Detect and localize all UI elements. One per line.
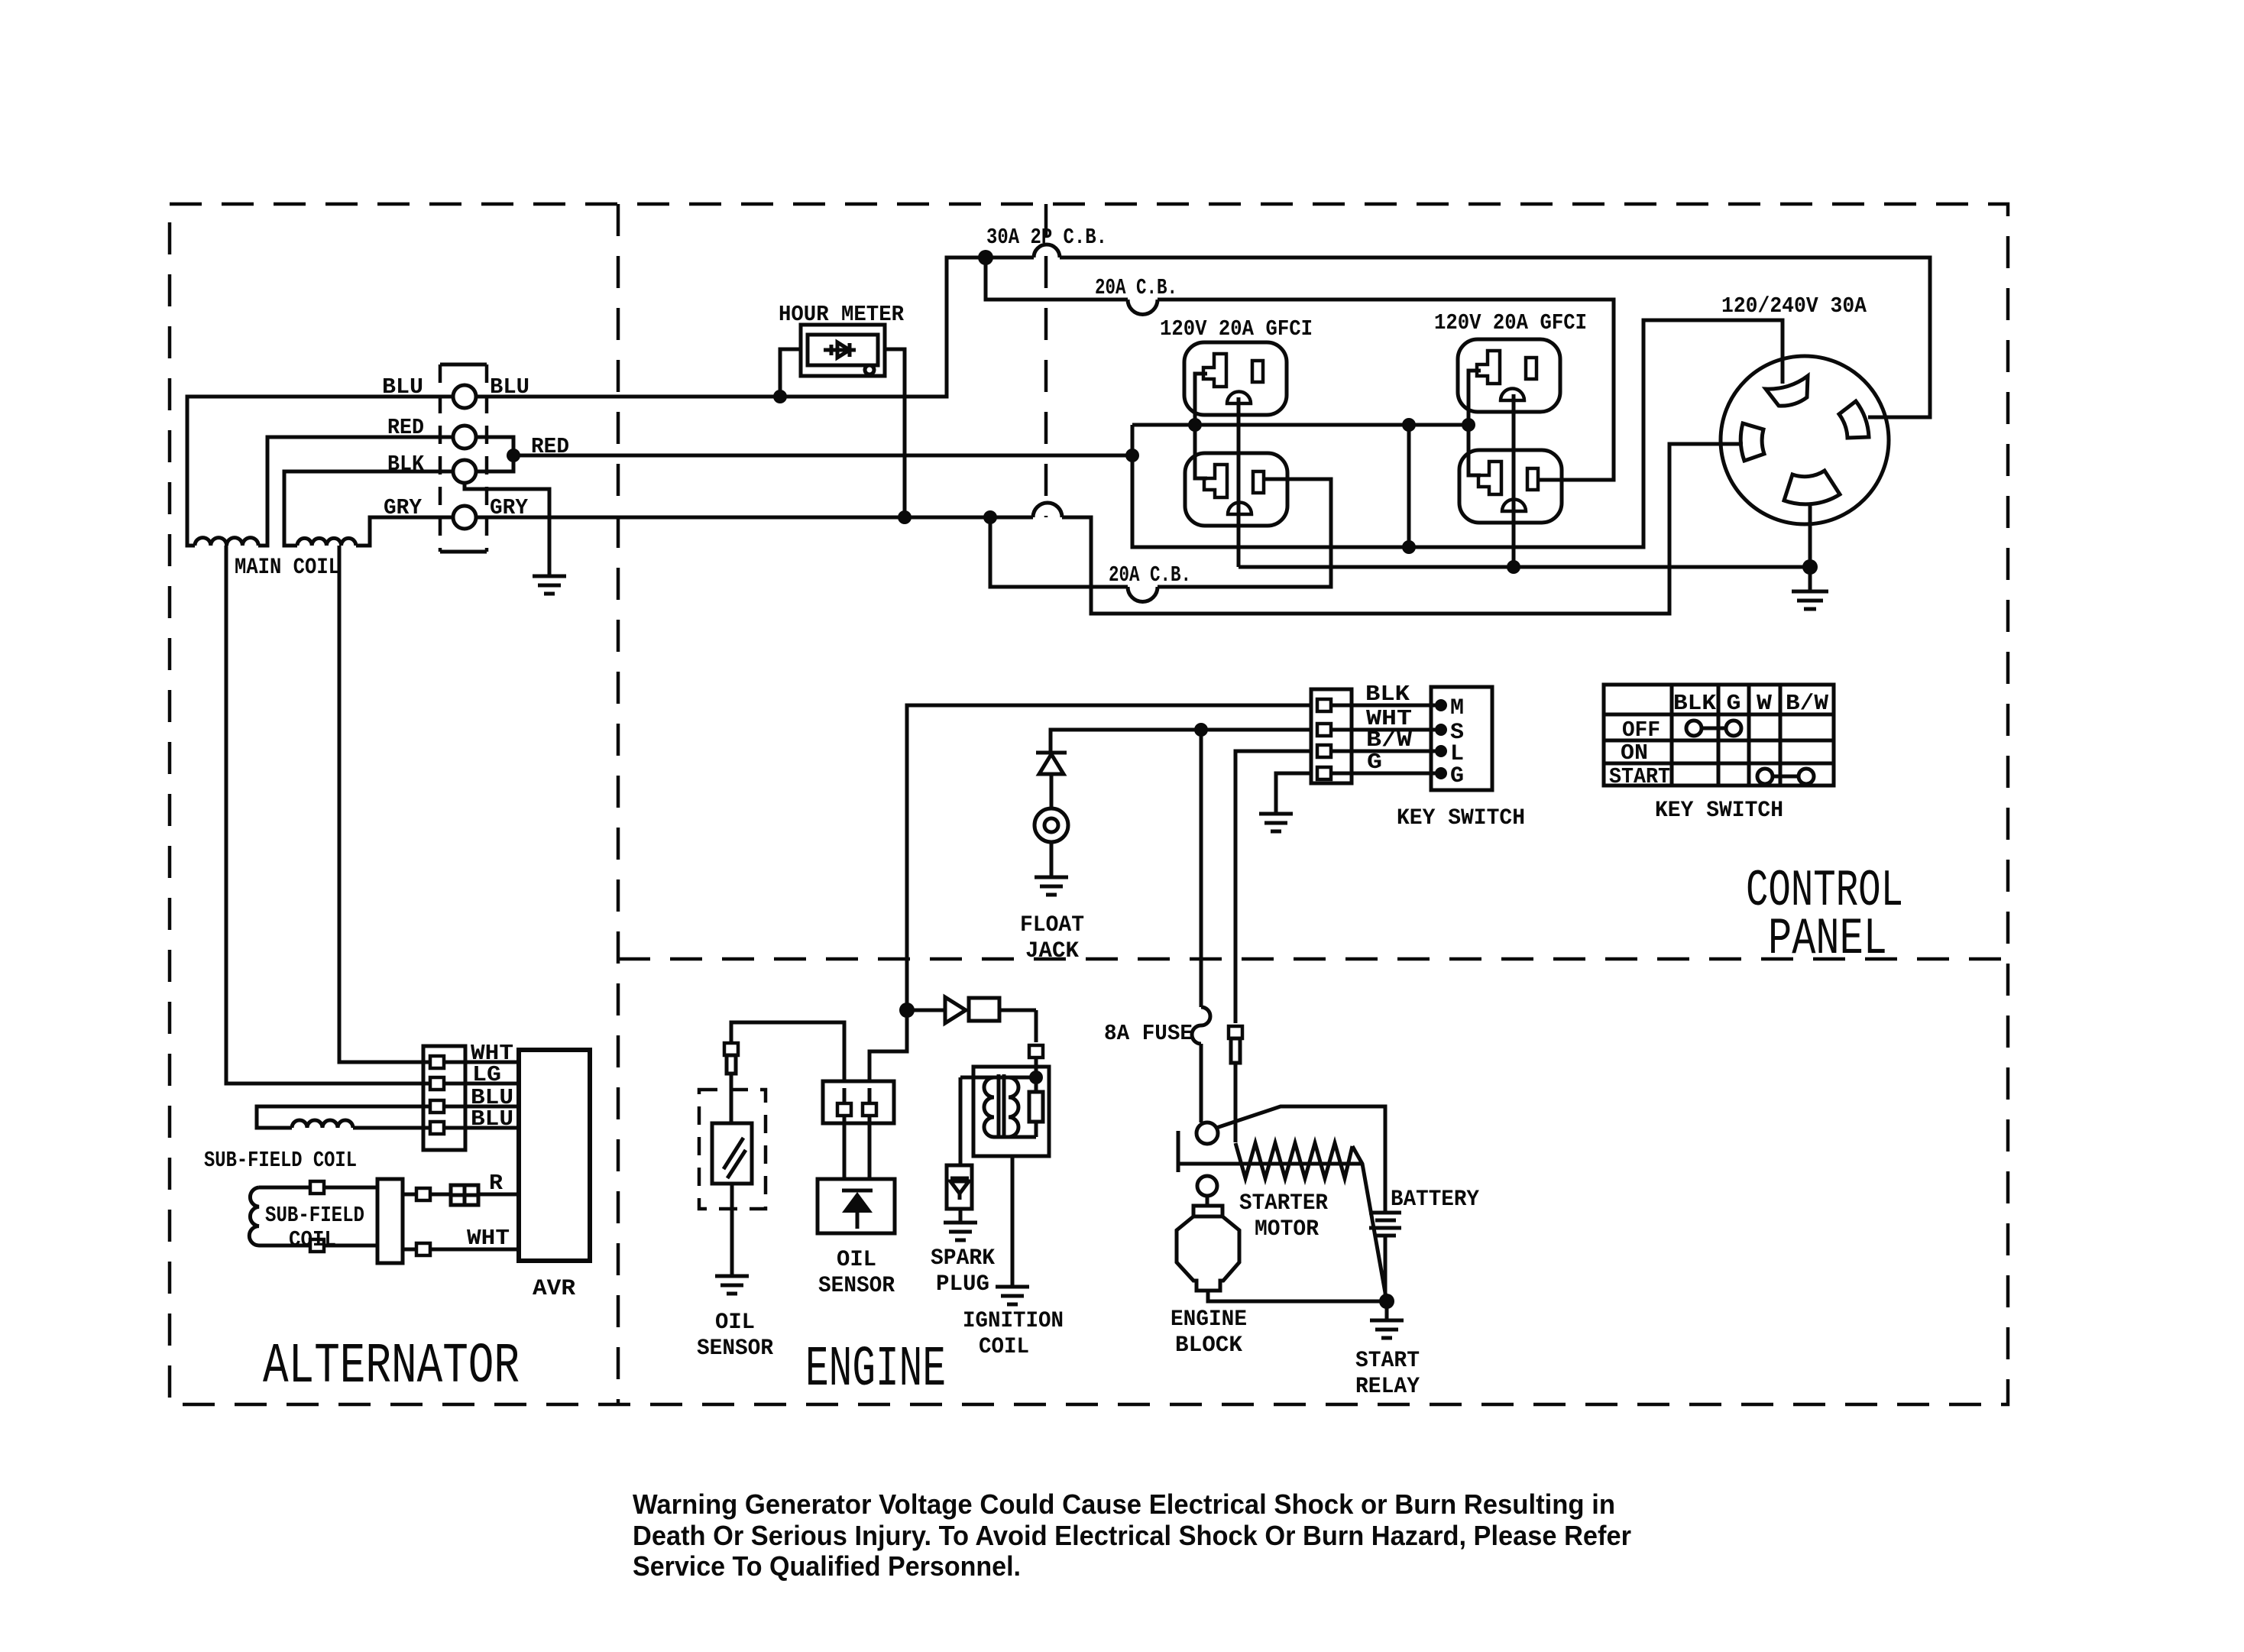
key switch terminal S bbox=[1435, 724, 1447, 736]
diode float jack bbox=[1036, 753, 1067, 808]
wire ignition coil to spark plug bbox=[959, 1077, 963, 1165]
ground symbol key switch bbox=[1259, 814, 1293, 831]
wire housing to R fuse bbox=[403, 1193, 451, 1197]
svg-text:120V 20A GFCI: 120V 20A GFCI bbox=[1160, 316, 1313, 342]
key switch body bbox=[1431, 687, 1492, 790]
CDI unit (triangle and box) bbox=[907, 997, 1036, 1023]
wire BLK from main coil to connector bbox=[284, 471, 453, 546]
AVR pin LG bbox=[430, 1077, 461, 1090]
wire BLU terminal to hour meter tap and 30A breaker riser bbox=[476, 258, 1034, 397]
svg-text:G: G bbox=[1727, 691, 1741, 716]
twist-lock receptacle body 120/240V 30A bbox=[1721, 356, 1889, 524]
svg-text:BLK: BLK bbox=[387, 452, 425, 477]
wire B/W pin to relay coil bbox=[1234, 1063, 1238, 1142]
svg-text:G: G bbox=[1367, 750, 1382, 775]
GFCI receptacle pair 1 lower bbox=[1185, 453, 1287, 526]
enclosure divider: alternator right wall (dashed) bbox=[617, 204, 620, 1404]
resistor leads bbox=[993, 1077, 1036, 1137]
twist-lock right contact bbox=[1839, 401, 1869, 438]
svg-text:COIL: COIL bbox=[979, 1334, 1029, 1360]
terminal circle BLK bbox=[453, 460, 476, 483]
junction dot ground bus pair 2 bbox=[1507, 560, 1520, 574]
earth ground symbol at receptacle bbox=[1792, 591, 1828, 609]
starter motor terminal circle bbox=[1197, 1176, 1217, 1196]
wire junction to ground bbox=[1385, 1301, 1389, 1320]
GFCI receptacle pair 2 upper bbox=[1458, 339, 1560, 412]
spark plug case bbox=[947, 1165, 972, 1209]
svg-text:ALTERNATOR: ALTERNATOR bbox=[263, 1335, 520, 1399]
ground symbol spark plug bbox=[944, 1223, 977, 1240]
svg-text:STARTER: STARTER bbox=[1239, 1190, 1328, 1216]
svg-text:Service To Qualified Personnel: Service To Qualified Personnel. bbox=[633, 1550, 1021, 1582]
terminal circle GRY bbox=[453, 506, 476, 529]
svg-text:PANEL: PANEL bbox=[1768, 910, 1887, 969]
wire BLU from main coil to connector bbox=[187, 397, 453, 546]
junction dot ignition coil bbox=[1029, 1071, 1043, 1084]
junction dot ignition feed bbox=[899, 1003, 915, 1018]
oil level sensor (dashed case) bbox=[699, 1090, 766, 1209]
circuit breaker arc on GRY line bbox=[1033, 503, 1062, 517]
wire hour meter left lead bbox=[780, 349, 801, 397]
oil sensor module connector bbox=[823, 1081, 894, 1123]
wire BLK terminal to case ground bbox=[465, 483, 549, 576]
junction dot hour meter right tap bbox=[898, 510, 912, 524]
svg-text:8A FUSE: 8A FUSE bbox=[1104, 1021, 1193, 1046]
svg-text:OIL: OIL bbox=[837, 1247, 876, 1273]
wire branch to upper 20A breaker bbox=[986, 258, 1128, 300]
wire B/W from key switch to start relay coil bbox=[1235, 751, 1311, 1023]
GFCI receptacle pair 1 upper bbox=[1184, 342, 1287, 415]
junction dot lower 20A breaker branch bbox=[983, 510, 997, 524]
module pin right bbox=[863, 1088, 876, 1116]
svg-text:KEY SWITCH: KEY SWITCH bbox=[1397, 805, 1525, 831]
wire fuse to start relay contact bbox=[1200, 1044, 1203, 1122]
ignition coil secondary winding bbox=[1009, 1077, 1018, 1137]
ignition coil primary winding bbox=[984, 1077, 994, 1137]
wire GFCI pair 2 T-slot chain bbox=[1468, 371, 1481, 475]
wire hour meter right lead bbox=[885, 349, 905, 517]
ignition coil case bbox=[973, 1067, 1049, 1156]
svg-text:ENGINE: ENGINE bbox=[805, 1338, 946, 1402]
svg-text:BLU: BLU bbox=[382, 374, 423, 400]
oil sensor diode bbox=[842, 1190, 873, 1229]
wire WHT from key switch to float jack branch bbox=[1051, 730, 1311, 753]
AVR pin WHT bbox=[430, 1056, 461, 1068]
junction dot start relay ground bbox=[1379, 1294, 1394, 1309]
svg-text:HOUR METER: HOUR METER bbox=[779, 302, 905, 327]
wire pin to oil sensor bbox=[730, 1074, 733, 1123]
wire 30A breaker to twist-lock right contact bbox=[1060, 258, 1930, 417]
internal dashed partition near circuit breakers bbox=[1044, 204, 1048, 517]
twist-lock ground contact bbox=[1784, 471, 1840, 504]
svg-text:PLUG: PLUG bbox=[936, 1271, 989, 1297]
pin on WHT wire bbox=[416, 1243, 430, 1255]
start relay armature to battery bbox=[1216, 1106, 1385, 1213]
wires AVR pins to AVR block bbox=[461, 1062, 519, 1128]
svg-text:KEY SWITCH: KEY SWITCH bbox=[1655, 798, 1783, 824]
wire ignition coil to ground bbox=[1011, 1156, 1015, 1287]
wire twist-lock ground contact bbox=[1808, 503, 1812, 591]
float jack connector bbox=[1035, 808, 1068, 842]
wire G pin to ground bbox=[1276, 773, 1311, 814]
circuit breaker 30A 2P C.B. (arc) bbox=[1034, 245, 1060, 258]
wire CDI to ignition coil bbox=[1035, 1010, 1038, 1042]
svg-text:BLK: BLK bbox=[1365, 682, 1410, 707]
svg-text:OFF: OFF bbox=[1622, 717, 1660, 743]
wire B/W connector to switch bbox=[1348, 750, 1441, 753]
wire GRY terminal to breakers and twist-lock left contact bbox=[476, 516, 1033, 520]
start relay coil (zigzag) bbox=[1235, 1143, 1352, 1178]
fuse box R (crossed square) bbox=[451, 1185, 478, 1205]
wires module to diode box bbox=[844, 1116, 869, 1179]
svg-text:SUB-FIELD COIL: SUB-FIELD COIL bbox=[204, 1148, 357, 1173]
key switch harness connector bbox=[1311, 689, 1352, 783]
svg-text:ENGINE: ENGINE bbox=[1171, 1307, 1247, 1333]
svg-text:Warning Generator Voltage Cou: Warning Generator Voltage Could Cause El… bbox=[633, 1488, 1615, 1520]
svg-text:B/W: B/W bbox=[1786, 691, 1829, 716]
table START contact link bbox=[1757, 769, 1814, 784]
alternator terminal strip (dashed sides) bbox=[440, 364, 487, 552]
start relay core line bbox=[1178, 1162, 1362, 1166]
svg-text:W: W bbox=[1757, 691, 1773, 716]
svg-text:BLOCK: BLOCK bbox=[1175, 1333, 1242, 1359]
junction dot neutral lower run bbox=[1402, 540, 1416, 554]
hour meter inner window bbox=[808, 335, 878, 365]
ground bus GFCI pair 1 bbox=[1237, 397, 1241, 567]
fuse 8A FUSE bbox=[1192, 1007, 1210, 1044]
enclosure divider: control panel / engine boundary (dashed) bbox=[618, 957, 2008, 961]
svg-text:RED: RED bbox=[387, 415, 424, 440]
junction dot hour meter left tap bbox=[773, 390, 787, 403]
key switch connector pin S bbox=[1317, 724, 1348, 736]
svg-text:R: R bbox=[489, 1171, 504, 1196]
table OFF contact link bbox=[1686, 721, 1741, 736]
hour meter internal diode bbox=[824, 342, 856, 358]
wire main coil tap to AVR pin LG bbox=[226, 546, 430, 1084]
inline connector pin on oil sensor wire bbox=[724, 1043, 738, 1074]
svg-text:MOTOR: MOTOR bbox=[1255, 1216, 1319, 1242]
key switch connector pin L bbox=[1317, 745, 1348, 757]
wire upper 20A breaker to GFCI pair 2 hot slot bbox=[1158, 300, 1614, 480]
wire sub-field coil 1 to BLU pins bbox=[257, 1106, 430, 1128]
svg-text:ON: ON bbox=[1621, 740, 1648, 766]
wire WHT start branch to 8A fuse bbox=[1200, 730, 1203, 1007]
svg-text:M: M bbox=[1450, 695, 1464, 721]
ground symbol ignition coil bbox=[996, 1287, 1029, 1304]
starter motor body bbox=[1177, 1196, 1239, 1291]
ground symbol start relay bbox=[1370, 1320, 1404, 1338]
wire RED from main coil to connector bbox=[258, 437, 453, 546]
inline connector pin on B/W wire bbox=[1229, 1026, 1242, 1063]
main coil winding 2 bbox=[297, 538, 356, 546]
svg-text:COIL: COIL bbox=[289, 1227, 336, 1252]
AVR block bbox=[519, 1050, 590, 1261]
svg-text:FLOAT: FLOAT bbox=[1020, 912, 1084, 938]
svg-text:RELAY: RELAY bbox=[1355, 1374, 1420, 1400]
key switch table bbox=[1604, 685, 1834, 786]
battery symbol bbox=[1369, 1213, 1401, 1236]
svg-text:WHT: WHT bbox=[467, 1226, 510, 1251]
pin on R wire bbox=[416, 1188, 430, 1200]
twist-lock top contact bbox=[1766, 376, 1808, 406]
neutral bus between GFCI pairs bbox=[1132, 423, 1468, 427]
wire RED riser to neutral bus and twist-lock top contact run bbox=[1132, 320, 1783, 547]
AVR harness connector bbox=[423, 1046, 465, 1150]
alternator / control panel / engine outer enclosure (dashed) bbox=[170, 204, 2008, 1404]
terminal circle RED bbox=[453, 426, 476, 449]
oil sensor diode box bbox=[818, 1179, 895, 1233]
ignition coil transformer core bbox=[999, 1074, 1004, 1139]
key switch terminal M bbox=[1435, 699, 1447, 711]
spark plug gap symbol bbox=[950, 1178, 969, 1200]
ground symbol below terminal strip bbox=[533, 576, 566, 594]
svg-text:20A C.B.: 20A C.B. bbox=[1109, 562, 1191, 588]
wire G connector to switch bbox=[1348, 772, 1441, 776]
wire BLK connector to switch bbox=[1348, 704, 1441, 708]
junction dot RED output bbox=[507, 449, 520, 462]
wire housing to AVR WHT bbox=[403, 1248, 519, 1252]
sub-field coil 2 loop wires bbox=[259, 1187, 377, 1245]
AVR pin BLU2 bbox=[430, 1122, 461, 1134]
wire neutral branch riser bbox=[1407, 425, 1411, 547]
ground symbol oil sensor bbox=[715, 1276, 749, 1294]
junction dot WHT to start circuit bbox=[1194, 723, 1208, 737]
wire oil sensor to ground bbox=[730, 1184, 734, 1276]
svg-text:G: G bbox=[1450, 763, 1464, 789]
key switch terminal L bbox=[1435, 745, 1447, 757]
svg-text:SENSOR: SENSOR bbox=[697, 1336, 773, 1362]
terminal circle BLU bbox=[453, 385, 476, 408]
start relay moving contact bbox=[1196, 1122, 1218, 1144]
junction dot neutral at GFCI pair 2 bbox=[1462, 418, 1475, 432]
svg-text:120/240V 30A: 120/240V 30A bbox=[1721, 293, 1867, 319]
wire RED output to GFCI neutral network bbox=[513, 454, 1132, 458]
wire GRY from main coil to connector bbox=[356, 517, 453, 546]
junction dot main ground bbox=[1802, 559, 1818, 575]
junction dot 30A breaker branch bbox=[978, 250, 993, 265]
svg-text:AVR: AVR bbox=[533, 1276, 575, 1302]
AVR pin BLU1 bbox=[430, 1100, 461, 1113]
wire R fuse to AVR bbox=[478, 1193, 519, 1197]
ignition coil resistor bbox=[1029, 1092, 1043, 1122]
key switch connector pin M bbox=[1317, 699, 1348, 711]
svg-text:Death Or Serious Injury. To Av: Death Or Serious Injury. To Avoid Electr… bbox=[633, 1520, 1631, 1551]
junction dot RED at GFCI riser bbox=[1125, 449, 1139, 462]
svg-text:SPARK: SPARK bbox=[931, 1245, 995, 1271]
svg-text:120V 20A GFCI: 120V 20A GFCI bbox=[1434, 310, 1587, 335]
wire BLK from key switch to engine bbox=[907, 705, 1311, 1010]
warning text bbox=[633, 1488, 1631, 1582]
svg-text:BLU: BLU bbox=[471, 1106, 513, 1132]
key switch terminal G bbox=[1435, 767, 1447, 779]
wire starter motor to ground junction bbox=[1208, 1291, 1387, 1301]
main coil winding 1 bbox=[195, 538, 258, 546]
svg-text:20A C.B.: 20A C.B. bbox=[1095, 275, 1177, 300]
wire battery to ground junction bbox=[1384, 1236, 1388, 1301]
svg-text:30A 2P C.B.: 30A 2P C.B. bbox=[986, 225, 1107, 250]
svg-text:MAIN COIL: MAIN COIL bbox=[235, 555, 340, 581]
wire main coil tap to AVR pin WHT bbox=[339, 546, 430, 1062]
ground bus GFCI pair 2 bbox=[1512, 394, 1516, 567]
sub-field coil 1 winding bbox=[292, 1120, 353, 1128]
wire oil sensor module top run bbox=[731, 1022, 844, 1081]
svg-text:SUB-FIELD: SUB-FIELD bbox=[265, 1203, 364, 1228]
svg-text:LG: LG bbox=[472, 1062, 501, 1087]
circuit breaker 20A C.B. upper (arc) bbox=[1128, 300, 1158, 315]
wire GRY continued to twist-lock left contact bbox=[1062, 444, 1743, 614]
sub-field coil 2 pin bottom bbox=[310, 1239, 324, 1252]
svg-text:SENSOR: SENSOR bbox=[818, 1273, 895, 1299]
sub-field coil 2 housing bbox=[377, 1179, 403, 1263]
start relay fixed contact bar bbox=[1177, 1131, 1180, 1172]
key switch connector pin G bbox=[1317, 767, 1348, 779]
svg-text:BLK: BLK bbox=[1673, 691, 1717, 716]
ground bus to receptacle ground bbox=[1239, 565, 1810, 569]
svg-text:BATTERY: BATTERY bbox=[1391, 1187, 1479, 1213]
junction dot neutral branch at pair 2 riser bbox=[1402, 418, 1416, 432]
svg-text:OIL: OIL bbox=[715, 1310, 755, 1336]
wire GFCI pair 1 T-slot chain bbox=[1195, 374, 1207, 478]
wire RED/BLK junction bracket bbox=[476, 437, 513, 471]
sub-field coil 2 winding (vertical) bbox=[249, 1187, 259, 1245]
junction dot neutral at GFCI pair 1 bbox=[1188, 418, 1202, 432]
wire spark plug to ground bbox=[959, 1209, 963, 1223]
twist-lock left contact bbox=[1740, 423, 1764, 461]
svg-text:IGNITION: IGNITION bbox=[963, 1308, 1064, 1334]
svg-text:GRY: GRY bbox=[384, 495, 423, 520]
svg-text:START: START bbox=[1355, 1348, 1420, 1374]
svg-text:START: START bbox=[1609, 764, 1670, 789]
ground symbol float jack bbox=[1035, 877, 1068, 895]
ignition coil top bus bbox=[960, 1076, 1036, 1080]
circuit breaker 20A C.B. lower (arc) bbox=[1128, 587, 1158, 602]
wire WHT connector to switch bbox=[1348, 728, 1441, 732]
oil level sensor element bbox=[712, 1123, 752, 1184]
wire float jack to ground bbox=[1050, 842, 1054, 877]
GFCI receptacle pair 2 lower bbox=[1459, 450, 1562, 523]
inline connector pin on ignition wire bbox=[1029, 1045, 1043, 1077]
sub-field coil 2 pin top bbox=[310, 1181, 324, 1194]
hour meter reset circle bbox=[865, 365, 874, 374]
module pin left bbox=[837, 1088, 851, 1116]
wire BLK down to oil sensor module bbox=[869, 1010, 907, 1081]
wire branch to lower 20A breaker bbox=[990, 517, 1128, 587]
hour meter outer case bbox=[801, 325, 885, 376]
wire lower 20A breaker to GFCI pair 1 hot slot bbox=[1158, 479, 1331, 587]
svg-text:JACK: JACK bbox=[1025, 938, 1079, 964]
wire relay coil to ground junction bbox=[1352, 1146, 1387, 1301]
